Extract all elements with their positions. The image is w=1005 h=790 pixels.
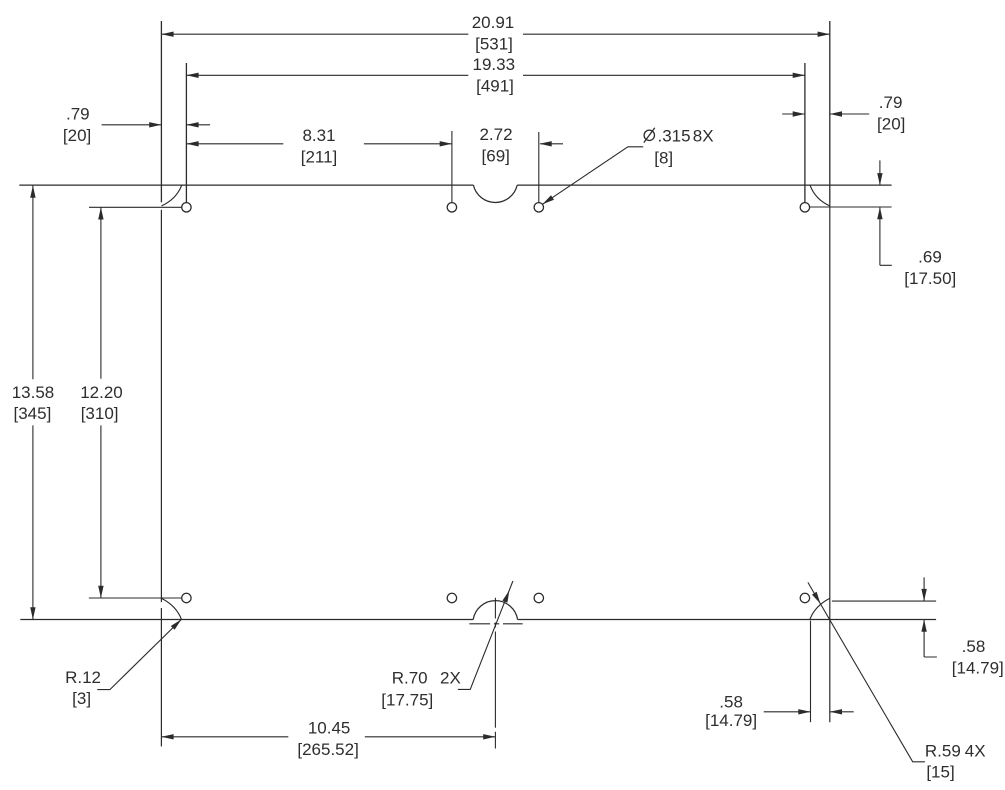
hole H3 top [534,203,543,212]
leader R.12 [97,619,181,689]
svg-text:[211]: [211] [301,148,338,167]
arrowheads 10.45 [161,734,173,739]
fillet top-left R.59 [162,185,182,206]
centerline vertical bottom notch [494,598,496,749]
arrowheads 20.91 [161,32,173,37]
svg-text:R.12: R.12 [65,668,101,687]
svg-text:[8]: [8] [654,149,673,168]
svg-text:[14.79]: [14.79] [952,659,1004,678]
svg-text:[17.75]: [17.75] [381,691,433,710]
centerline horizontal bottom notch [469,623,522,625]
arrowhead leader R.70 [502,590,509,602]
arrowheads .79 left [149,122,161,127]
dimension line 12.20 [100,207,102,598]
hole H4 top-right [800,203,809,212]
svg-text:[345]: [345] [13,404,51,423]
hole H6 bottom [447,593,456,602]
panel left edge + extensions [160,21,162,202]
svg-text:[17.50]: [17.50] [904,269,956,288]
hole H5 bottom-left [182,593,191,602]
svg-text:[531]: [531] [475,35,513,54]
extension line fillet tangent bottom [810,621,812,723]
arrowhead leader R.59 [812,592,820,604]
arrowhead 2.72 [540,141,552,146]
svg-text:[20]: [20] [63,126,91,145]
leader R.70 [458,581,513,689]
extension line right hole column [804,63,806,203]
dimension .79 right lines [782,113,869,115]
arrowhead leader diameter .315 [542,195,554,204]
arrowheads .58 right [921,589,926,601]
panel bottom edge with notch gap [20,619,936,621]
hole H7 bottom [534,593,543,602]
extension line fillet tangent right [832,600,936,602]
svg-text:[265.52]: [265.52] [297,740,358,759]
bottom notch R.70 [473,601,517,620]
dimension line 19.33 [186,74,805,76]
fillet bottom-left R.59 [162,598,182,619]
svg-text:[69]: [69] [482,147,510,166]
svg-text:.58: .58 [962,637,986,656]
fillet top-right R.59 [810,185,830,206]
svg-text:.69: .69 [918,248,942,267]
svg-text:2.72: 2.72 [479,125,512,144]
svg-text:10.45: 10.45 [308,719,351,738]
diameter symbol [644,128,655,143]
svg-text:.79: .79 [879,93,903,112]
svg-text:12.20: 12.20 [80,383,123,402]
svg-text:4X: 4X [965,742,986,761]
svg-text:2X: 2X [440,668,461,687]
svg-text:8.31: 8.31 [302,126,335,145]
panel top edge with notch gap [19,184,891,186]
extension line left hole column [185,63,187,203]
hole H2 top [447,203,456,212]
dimension 2.72 arrow tail [540,143,563,145]
extension line top hole row right [810,206,892,208]
dimension .58 right lines [924,577,937,657]
arrowheads 19.33 [186,73,198,78]
dimension .58 bottom lines [764,711,854,713]
arrowheads 8.31 [186,141,198,146]
svg-text:[3]: [3] [72,689,91,708]
extension line hole H2 [451,131,453,203]
svg-text:20.91: 20.91 [472,13,515,32]
panel right edge + extensions [829,21,831,204]
svg-text:[15]: [15] [926,763,954,782]
svg-text:.58: .58 [719,693,743,712]
svg-text:[20]: [20] [877,115,905,134]
extension line bottom hole row left [89,597,182,599]
arrowheads .69 [877,173,882,185]
leader R.59 [808,582,925,761]
svg-text:13.58: 13.58 [12,383,55,402]
svg-text:19.33: 19.33 [473,55,516,74]
arrowheads 12.20 [98,207,103,219]
fillet bottom-right R.59 [810,598,830,619]
leader diameter .315 [542,147,643,205]
hole H1 top-left [182,203,191,212]
dimension line 13.58 [32,185,34,619]
dimension .79 left lines [102,124,211,126]
dimension line 20.91 [161,33,829,35]
hole H8 bottom-right [800,593,809,602]
extension line hole H3 [538,132,540,203]
svg-text:[310]: [310] [81,404,119,423]
svg-text:R.70: R.70 [392,668,428,687]
svg-text:.315: .315 [658,127,691,146]
svg-text:R.59: R.59 [925,742,961,761]
arrowhead leader R.12 [171,619,182,629]
svg-text:.79: .79 [66,105,90,124]
svg-text:[14.79]: [14.79] [705,711,757,730]
top notch R.70 [473,185,517,202]
arrowheads 13.58 [30,186,35,198]
dimension line 8.31 [186,143,452,145]
arrowheads .79 right [793,111,805,116]
svg-text:[491]: [491] [476,77,514,96]
dimension line 10.45 [161,736,495,738]
arrowheads .58 bottom [798,709,810,714]
extension line top hole row left [89,206,182,208]
dimension .69 lines [880,160,892,265]
svg-text:8X: 8X [693,127,714,146]
